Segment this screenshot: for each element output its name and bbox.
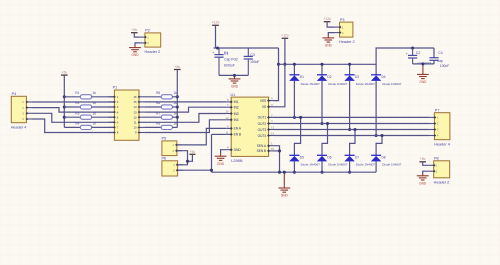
diode D5 1N4007 — [289, 154, 299, 156]
svg-text:Header 2: Header 2 — [339, 40, 355, 44]
connector P3 Header 2 — [340, 22, 353, 37]
svg-text:P2: P2 — [145, 29, 150, 33]
svg-text:Header 2: Header 2 — [434, 181, 450, 185]
svg-text:Header 4: Header 4 — [11, 125, 27, 129]
wire P4.2 to P1.4 — [31, 108, 114, 113]
wire +12v to U1 VS — [274, 38, 285, 107]
diode D2 1N4007 — [317, 74, 327, 76]
junction D2 OUT2 — [320, 122, 323, 125]
svg-text:IN4: IN4 — [234, 118, 239, 122]
junction feed D7 — [353, 128, 356, 131]
svg-text:Diode 1N4007: Diode 1N4007 — [301, 82, 321, 86]
resistor R1 — [80, 95, 91, 99]
junction +5v rail R1 — [63, 95, 66, 98]
svg-text:+5v: +5v — [420, 157, 426, 161]
junction feed D8 — [380, 134, 383, 137]
wire R1 to P1 — [92, 96, 115, 98]
wire P1.11 to U1 IN3 — [145, 114, 226, 123]
svg-text:EN B: EN B — [234, 133, 241, 137]
power +12v VS — [282, 37, 289, 39]
junction rail R7 — [176, 116, 179, 119]
resistor R8 — [161, 125, 172, 129]
svg-text:OUT3: OUT3 — [258, 128, 267, 132]
pin numbers P1 right 16-9 — [133, 95, 137, 135]
wire P1.13 to U1 IN2 — [145, 107, 226, 112]
svg-text:100nF: 100nF — [250, 60, 259, 64]
junction VS diode rail — [283, 63, 286, 66]
wire cap bank gnd stem — [234, 75, 236, 77]
svg-text:Diode 1N4007: Diode 1N4007 — [382, 82, 402, 86]
svg-text:C2: C2 — [416, 51, 420, 55]
svg-text:+5v: +5v — [131, 28, 137, 32]
resistor R5 — [161, 95, 172, 99]
wire D2 to OUT2 — [321, 81, 323, 124]
svg-text:1k: 1k — [93, 122, 97, 126]
wire P5.2 to P6.1 — [177, 151, 188, 165]
ground P8 — [422, 173, 424, 175]
svg-text:D8: D8 — [382, 156, 386, 160]
svg-text:Diode 1N4007: Diode 1N4007 — [382, 163, 402, 167]
svg-text:R2: R2 — [75, 101, 79, 105]
svg-text:EN A: EN A — [234, 127, 242, 131]
diode D7 1N4007 — [345, 154, 355, 156]
wire to U1 ENB — [212, 133, 227, 135]
svg-text:1k: 1k — [173, 91, 177, 95]
wire D8 to bottom rail — [375, 161, 377, 172]
svg-text:GND: GND — [234, 148, 242, 152]
svg-text:+12v: +12v — [212, 21, 220, 25]
svg-text:R3: R3 — [75, 111, 79, 115]
svg-text:100nF: 100nF — [440, 64, 449, 68]
ground U1 GND — [220, 153, 222, 156]
wire diode top rail to right cap bank — [279, 48, 435, 64]
diode D6 1N4007 — [317, 154, 327, 156]
svg-text:IN1: IN1 — [234, 100, 239, 104]
wire U1 SENB — [274, 150, 280, 152]
power +5v jumper — [189, 153, 195, 155]
wire P1 to R8 — [145, 126, 161, 128]
power +5v left rail — [61, 74, 68, 76]
wire P4.3 to P1.6 — [31, 113, 114, 122]
svg-text:10: 10 — [225, 110, 229, 114]
pins P5 — [177, 144, 182, 146]
wire R6 to +5v rail — [172, 106, 177, 108]
junction feed D5 — [299, 116, 302, 119]
svg-text:GND: GND — [419, 181, 427, 185]
wire P4.4 to P1.8 — [31, 119, 114, 133]
svg-text:IN3: IN3 — [234, 112, 239, 116]
pins P7 — [429, 116, 434, 118]
junction rail R6 — [176, 105, 179, 108]
wire U1 OUT2 to P7.2 — [274, 123, 430, 125]
diode D8 1N4007 — [371, 154, 381, 156]
wire +5v to P2.1 — [134, 33, 140, 37]
diode D3 1N4007 — [345, 74, 355, 76]
svg-text:OUT1: OUT1 — [258, 116, 267, 120]
svg-text:VS: VS — [262, 105, 266, 109]
wire P1.15 to U1 IN1 — [145, 101, 226, 103]
junction VSS diode rail — [277, 63, 280, 66]
svg-text:R1: R1 — [75, 91, 79, 95]
capacitor C1 — [218, 48, 220, 55]
wire right cap gnd stem — [422, 64, 424, 66]
power +5v right rail — [174, 69, 181, 71]
wire rail to D3 — [349, 64, 351, 75]
wire OUT3 to D7 — [350, 130, 355, 156]
svg-text:Diode 1N4007: Diode 1N4007 — [328, 82, 348, 86]
svg-text:IN2: IN2 — [234, 106, 239, 110]
svg-text:OUT4: OUT4 — [258, 134, 267, 138]
junction rail D1 — [293, 63, 296, 66]
svg-text:+5v: +5v — [190, 150, 196, 154]
junction D1 OUT1 — [293, 116, 296, 119]
svg-text:16: 16 — [133, 95, 137, 99]
junction gnd stem — [283, 171, 286, 174]
svg-text:10: 10 — [133, 126, 137, 130]
junction cap gnd — [233, 74, 236, 77]
svg-text:Cap: Cap — [437, 59, 443, 63]
wire P3.2 to gnd — [328, 33, 334, 36]
wire rail to D1 — [293, 64, 295, 75]
svg-text:C1: C1 — [224, 51, 228, 55]
svg-text:13: 13 — [133, 110, 137, 114]
svg-text:14: 14 — [133, 105, 137, 109]
pins P2 — [140, 36, 145, 38]
connector P6 Header 2 — [162, 161, 178, 176]
svg-text:Diode 1N4007: Diode 1N4007 — [356, 82, 376, 86]
wire rail to D2 — [321, 64, 323, 75]
ground left cap bank — [234, 77, 236, 79]
svg-text:D2: D2 — [327, 75, 331, 79]
pins P4 1-4 — [26, 101, 31, 103]
junction +12v rail — [216, 46, 219, 49]
svg-text:D4: D4 — [382, 75, 386, 79]
svg-text:12: 12 — [133, 115, 137, 119]
wire +5v to R2 — [64, 106, 80, 108]
junction feed D6 — [326, 122, 329, 125]
wire U1 GND pin — [221, 150, 227, 154]
svg-text:+: + — [406, 52, 408, 56]
wire R2 to P1 — [92, 106, 115, 108]
junction bottom rail D5 — [293, 171, 296, 174]
junction jumper +5v — [186, 160, 189, 163]
svg-text:+5v: +5v — [61, 71, 67, 75]
connector P2 Header 2 — [145, 33, 161, 47]
junction D3 OUT3 — [348, 128, 351, 131]
svg-text:+: + — [212, 51, 214, 55]
resistor R4 — [80, 125, 91, 129]
resistor R7 — [161, 115, 172, 119]
svg-text:Header 4: Header 4 — [434, 142, 450, 146]
wire +5v to R1 — [64, 96, 80, 98]
wire +12v stem — [215, 25, 217, 48]
svg-text:VSS: VSS — [260, 99, 266, 103]
svg-text:U1: U1 — [231, 93, 236, 97]
wire P1.9 to U1 IN4 — [145, 120, 226, 133]
resistor R3 — [80, 115, 91, 119]
svg-text:GND: GND — [281, 194, 289, 198]
wire +5v to R4 — [64, 126, 80, 128]
ground P3 — [327, 35, 329, 38]
svg-text:OUT2: OUT2 — [258, 122, 267, 126]
svg-text:1k: 1k — [93, 91, 97, 95]
wire +5v to R3 — [64, 116, 80, 118]
wire +5v right rail vertical — [176, 70, 178, 128]
connector P7 Header 4 — [434, 113, 450, 140]
svg-text:GND: GND — [231, 85, 239, 89]
ground bottom rail — [283, 173, 285, 188]
wire +12v to P3.1 — [327, 22, 335, 27]
svg-text:SEN B: SEN B — [257, 149, 267, 153]
wire P6.2 to ENB/GND node — [178, 169, 212, 171]
diode D1 1N4007 — [289, 74, 299, 76]
wire +5v to P8.1 — [423, 162, 429, 166]
wire U1 SENA to bottom rail — [274, 146, 280, 173]
svg-text:L298N: L298N — [231, 159, 242, 163]
wire U1 OUT4 to P7.4 — [274, 135, 430, 137]
svg-text:P4: P4 — [12, 92, 17, 96]
svg-text:Cap Pol2: Cap Pol2 — [224, 57, 238, 61]
wire rail to U1 VSS — [274, 48, 279, 101]
resistor R6 — [161, 105, 172, 109]
component P1 DIP16 — [114, 90, 139, 140]
wire P8.2 to gnd — [423, 171, 429, 173]
junction right cap gnd — [421, 62, 424, 65]
wire D7 to bottom rail — [349, 161, 351, 172]
junction C2 rail — [411, 46, 414, 49]
junction +5v rail R3 — [63, 116, 66, 119]
junction rail R5 — [176, 95, 179, 98]
wire P1 to R6 — [145, 106, 161, 108]
junction rail D2 — [320, 63, 323, 66]
svg-text:Diode 1N4007: Diode 1N4007 — [301, 163, 321, 167]
junction bottom rail D6 — [320, 171, 323, 174]
wire D1 to OUT1 — [293, 81, 295, 118]
wire OUT2 to D6 — [322, 124, 328, 156]
wire U1 OUT3 to P7.3 — [274, 129, 430, 131]
svg-text:P5: P5 — [162, 137, 167, 141]
svg-text:GND: GND — [131, 53, 139, 57]
capacitor C2 — [412, 48, 414, 55]
svg-text:P6: P6 — [162, 157, 167, 161]
svg-text:P8: P8 — [434, 157, 439, 161]
svg-text:D5: D5 — [300, 156, 304, 160]
svg-text:Diode 1N4007: Diode 1N4007 — [328, 163, 348, 167]
pins P6 — [178, 164, 183, 166]
pins P3 — [335, 26, 340, 28]
pin numbers P1 left 1-8 — [117, 95, 119, 135]
pins P1 right — [138, 96, 145, 134]
wire U1 OUT1 to P7.1 — [274, 116, 430, 118]
svg-text:P7: P7 — [435, 108, 440, 112]
svg-text:12: 12 — [225, 116, 229, 120]
wire +5v left rail vertical — [63, 75, 65, 127]
power +12v main — [212, 24, 219, 26]
wire D6 to bottom rail — [321, 161, 323, 172]
wire bottom rail — [212, 171, 377, 173]
svg-text:1k: 1k — [93, 101, 97, 105]
svg-text:D1: D1 — [300, 75, 304, 79]
svg-text:C4: C4 — [438, 51, 442, 55]
wire R8 to +5v rail — [172, 126, 177, 128]
svg-text:+12v: +12v — [323, 17, 331, 21]
svg-text:R4: R4 — [75, 122, 79, 126]
junction D4 OUT4 — [375, 134, 378, 137]
capacitor C4 — [433, 48, 435, 58]
wire OUT1 to D5 — [294, 117, 300, 155]
pins U1 left — [225, 98, 241, 152]
svg-text:P3: P3 — [340, 18, 345, 22]
svg-text:11: 11 — [134, 121, 137, 125]
svg-text:D7: D7 — [355, 156, 359, 160]
diode D4 1N4007 — [371, 74, 381, 76]
svg-text:+5v: +5v — [174, 65, 180, 69]
svg-text:C3: C3 — [250, 53, 254, 57]
IC U1 L298N — [231, 97, 268, 156]
wire R7 to +5v rail — [172, 116, 177, 118]
svg-text:GND: GND — [217, 162, 225, 166]
wire D3 to OUT3 — [349, 81, 351, 130]
wire OUT4 to D8 — [376, 136, 382, 156]
svg-text:Diode 1N4007: Diode 1N4007 — [356, 163, 376, 167]
wire rail to D4 — [375, 64, 377, 75]
wire P5.1 to U1 ENA — [177, 128, 226, 145]
connector P5 Header 2 — [162, 141, 177, 156]
wire top rail left cap bank — [214, 47, 279, 49]
wire P1 to R5 — [145, 96, 161, 98]
wire bottom rail right cap bank — [413, 63, 434, 65]
svg-text:P1: P1 — [113, 86, 118, 90]
wire P4.1 to P1.2 — [31, 101, 114, 103]
ground right cap bank — [422, 66, 424, 74]
wire bottom rail gnd stem — [283, 172, 285, 173]
wire ENB vertical to bottom rail — [211, 134, 213, 172]
junction SENB — [278, 149, 281, 152]
svg-text:1000uF: 1000uF — [224, 63, 235, 67]
svg-text:GND: GND — [325, 44, 333, 48]
pins P1 left — [108, 96, 115, 134]
svg-text:1k: 1k — [93, 111, 97, 115]
svg-text:D6: D6 — [327, 156, 331, 160]
svg-text:15: 15 — [133, 100, 137, 104]
svg-text:SEN A: SEN A — [257, 144, 267, 148]
svg-text:Header 2: Header 2 — [145, 50, 161, 54]
wire R4 to P1 — [92, 126, 115, 128]
wire D4 to OUT4 — [375, 81, 377, 136]
connector P4 Header 4 — [11, 96, 26, 122]
junction P6.2 — [210, 169, 213, 172]
power +5v P2 — [131, 32, 138, 34]
resistor R2 — [80, 105, 91, 109]
svg-text:R5: R5 — [156, 91, 160, 95]
svg-text:11: 11 — [226, 130, 229, 134]
junction rail D3 — [348, 63, 351, 66]
capacitor C3 — [247, 48, 249, 56]
pins P8 — [429, 164, 434, 166]
wire R3 to P1 — [92, 116, 115, 118]
svg-text:GND: GND — [419, 80, 427, 84]
junction SEN bottom rail — [278, 171, 281, 174]
wire P1 to R7 — [145, 116, 161, 118]
junction bottom rail D7 — [348, 171, 351, 174]
junction +5v rail R2 — [63, 105, 66, 108]
wire D5 to bottom rail — [293, 161, 295, 172]
wire +5v to jumper chain — [188, 154, 193, 161]
pins U1 right — [257, 97, 275, 154]
wire bottom rail left cap bank — [219, 74, 248, 76]
ground P2 — [134, 45, 136, 47]
svg-text:D3: D3 — [355, 75, 359, 79]
svg-text:+12v: +12v — [281, 34, 289, 38]
power +12v P3 — [324, 21, 331, 23]
wire R5 to +5v rail — [172, 96, 177, 98]
power +5v P8 — [419, 161, 426, 163]
wire P2.2 to gnd — [135, 43, 140, 46]
connector P8 Header 2 — [434, 161, 450, 178]
